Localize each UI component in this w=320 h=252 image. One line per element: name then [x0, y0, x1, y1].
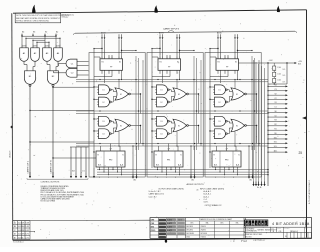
- svg-text:S1: S1: [274, 102, 276, 104]
- svg-text:1B2: 1B2: [191, 180, 194, 182]
- svg-text:REV: REV: [305, 228, 308, 230]
- svg-text:2N3639: 2N3639: [201, 226, 206, 228]
- svg-text:OUTPUT ENABLE 1/2: OUTPUT ENABLE 1/2: [205, 204, 222, 207]
- svg-text:B1: B1: [161, 33, 163, 35]
- svg-text:4-69: 4-69: [25, 230, 28, 232]
- svg-text:CARRY INPUTS: CARRY INPUTS: [163, 27, 180, 30]
- svg-text:2-4-7249 v0: 2-4-7249 v0: [253, 239, 265, 242]
- svg-text:E1: E1: [178, 94, 180, 96]
- svg-text:D2: D2: [218, 102, 220, 104]
- svg-text:PRINTED CIRCUIT REV.: PRINTED CIRCUIT REV.: [246, 234, 263, 236]
- svg-text:C2: C2: [274, 98, 276, 100]
- svg-text:DEC3009B: DEC3009B: [186, 233, 194, 235]
- svg-text:E1: E1: [236, 94, 238, 96]
- svg-text:D1: D1: [160, 90, 162, 92]
- svg-text:t: t: [259, 221, 260, 225]
- svg-text:INPUT LOADS CHART (UNITS): INPUT LOADS CHART (UNITS): [200, 187, 225, 190]
- svg-text:D1: D1: [218, 90, 220, 92]
- svg-text:FF1: FF1: [167, 160, 170, 162]
- svg-text:B₀B₁: B₀B₁: [156, 164, 160, 166]
- svg-text:2N2894: 2N2894: [201, 230, 206, 232]
- svg-text:S2 L: S2 L: [274, 142, 278, 144]
- svg-text:C0: C0: [274, 115, 276, 117]
- svg-text:B2: B2: [45, 31, 47, 33]
- svg-text:A3 B3: A3 B3: [22, 45, 27, 48]
- svg-text:D3: D3: [218, 121, 220, 123]
- svg-text:R1: R1: [102, 62, 104, 64]
- svg-text:D4: D4: [160, 134, 162, 136]
- svg-text:8-70: 8-70: [25, 234, 28, 236]
- svg-text:D2: D2: [160, 102, 162, 104]
- svg-text:1,500: 1,500: [277, 73, 281, 75]
- svg-text:JL: JL: [22, 237, 24, 239]
- svg-text:Fred: Fred: [240, 239, 247, 243]
- svg-text:S: S: [108, 57, 109, 59]
- svg-text:E2: E2: [120, 125, 122, 127]
- svg-text:D2: D2: [102, 102, 104, 104]
- svg-text:25: 25: [299, 151, 303, 155]
- svg-text:A2: A2: [56, 30, 58, 33]
- svg-text:BD1: BD1: [298, 64, 301, 66]
- svg-text:S: S: [99, 177, 100, 179]
- svg-text:C1: C1: [274, 107, 276, 109]
- svg-text:CODE: CODE: [277, 228, 281, 230]
- svg-text:R0: R0: [274, 133, 276, 135]
- svg-text:S1: S1: [235, 62, 237, 64]
- svg-text:A3 B3: A3 B3: [33, 45, 38, 48]
- svg-text:D3: D3: [102, 121, 104, 123]
- svg-text:2-71: 2-71: [25, 237, 28, 239]
- svg-text:S: S: [224, 57, 225, 59]
- svg-text:S0: S0: [274, 111, 276, 113]
- svg-text:A₀, B₀: A₀, B₀: [257, 186, 262, 189]
- svg-text:B2: B2: [103, 33, 105, 35]
- svg-text:S3 L: S3 L: [274, 137, 278, 139]
- svg-text:D3: D3: [160, 121, 162, 123]
- svg-text:FF0: FF0: [225, 160, 228, 162]
- svg-text:OUTPUT DRIVE CHART (UNITS): OUTPUT DRIVE CHART (UNITS): [158, 187, 184, 190]
- svg-text:S1: S1: [119, 62, 121, 64]
- svg-text:9-68: 9-68: [25, 223, 28, 225]
- svg-text:A₀,A₁,A₂ 1: A₀,A₁,A₂ 1: [204, 190, 212, 193]
- svg-text:S2: S2: [274, 93, 276, 95]
- svg-text:R1: R1: [274, 129, 276, 131]
- svg-text:R1: R1: [218, 62, 220, 64]
- svg-text:D4: D4: [102, 134, 104, 136]
- svg-text:SIZE: SIZE: [271, 228, 274, 230]
- svg-text:1B2: 1B2: [133, 180, 136, 182]
- svg-text:A2 B2: A2 B2: [45, 45, 50, 48]
- svg-text:D664: D664: [186, 237, 190, 239]
- svg-text:1B1A-0-1: 1B1A-0-1: [290, 230, 298, 233]
- svg-text:1-69: 1-69: [25, 226, 28, 228]
- svg-text:4 BIT ADDER 1B1A: 4 BIT ADDER 1B1A: [272, 222, 310, 226]
- svg-text:E2: E2: [178, 125, 180, 127]
- svg-text:S: S: [166, 57, 167, 59]
- svg-text:A3: A3: [22, 30, 24, 33]
- svg-text:FF2: FF2: [109, 160, 112, 162]
- svg-text:CARRY (ADD) 1 B 2: CARRY (ADD) 1 B 2: [149, 193, 164, 196]
- svg-text:AND MAY VARY IN DETAIL FROM UN: AND MAY VARY IN DETAIL FROM UNITS CURREN…: [16, 17, 61, 20]
- svg-text:S: S: [215, 177, 216, 179]
- svg-text:1B1A CS: 1B1A CS: [8, 150, 11, 158]
- svg-text:R2: R2: [274, 124, 276, 126]
- svg-text:B3: B3: [33, 31, 35, 33]
- svg-text:DEC3639: DEC3639: [186, 226, 193, 228]
- svg-text:A2 B2: A2 B2: [56, 45, 61, 48]
- svg-text:CARRY OUT H: CARRY OUT H: [50, 160, 53, 174]
- svg-text:C3: C3: [274, 89, 276, 91]
- svg-text:S: S: [157, 177, 158, 179]
- svg-text:S1 L: S1 L: [274, 146, 278, 148]
- svg-text:B0: B0: [219, 33, 221, 35]
- svg-text:E1: E1: [120, 94, 122, 96]
- svg-text:E2: E2: [236, 125, 238, 127]
- svg-text:R2 IS 1500 OHMS: R2 IS 1500 OHMS: [41, 201, 56, 203]
- svg-text:IN FIELD SERVICE. CHECK REVISI: IN FIELD SERVICE. CHECK REVISIONS.: [16, 21, 49, 23]
- svg-text:1N3606: 1N3606: [201, 237, 206, 239]
- svg-text:NUMBER: NUMBER: [284, 228, 289, 230]
- svg-text:CARRY OUT L: CARRY OUT L: [27, 161, 30, 174]
- svg-text:CONTROL OUTPUTS: CONTROL OUTPUTS: [41, 182, 60, 184]
- svg-text:MPS3009: MPS3009: [201, 233, 208, 235]
- svg-text:2: 2: [233, 239, 235, 243]
- svg-text:B₀B₁: B₀B₁: [98, 164, 102, 166]
- svg-text:B-CS 4 BIT ADDER 1B1A-0-1: B-CS 4 BIT ADDER 1B1A-0-1: [308, 180, 311, 204]
- svg-text:CLR 1: CLR 1: [204, 202, 209, 204]
- svg-text:L30: L30: [196, 190, 199, 192]
- svg-text:R3: R3: [274, 120, 276, 122]
- svg-text:1B2: 1B2: [249, 180, 252, 182]
- svg-text:1,500: 1,500: [277, 67, 281, 69]
- svg-text:DEC2894: DEC2894: [186, 230, 193, 232]
- svg-text:ADDER OUTPUTS: ADDER OUTPUTS: [186, 183, 204, 186]
- svg-text:D1: D1: [102, 90, 104, 92]
- svg-text:Cout 1 B 2: Cout 1 B 2: [149, 195, 157, 198]
- svg-text:A₃,B₃ 1: A₃,B₃ 1: [204, 195, 210, 198]
- svg-text:S3: S3: [274, 85, 276, 87]
- svg-text:1,500: 1,500: [277, 80, 281, 82]
- svg-text:R1: R1: [160, 62, 162, 64]
- svg-text:S₀ thru S₃ 1 B 2: S₀ thru S₃ 1 B 2: [149, 190, 161, 193]
